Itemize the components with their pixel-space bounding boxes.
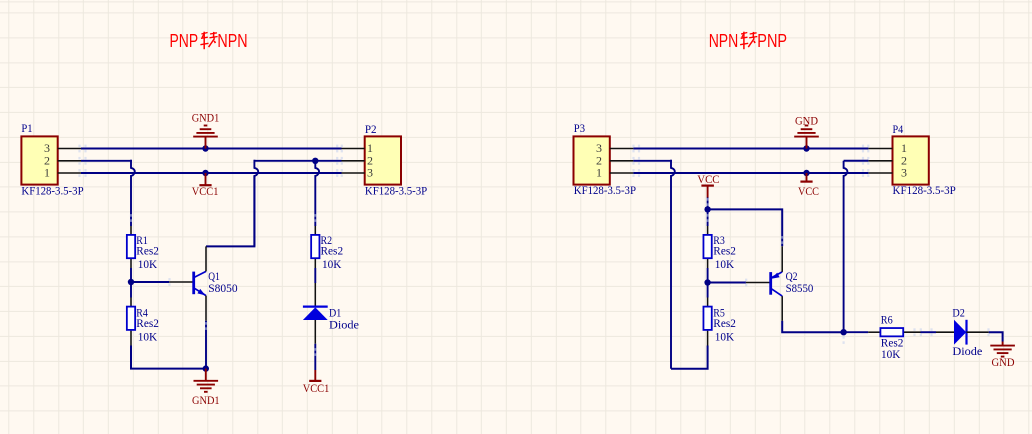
svg-text:Diode: Diode: [952, 346, 982, 358]
wire P4.2 riser x843.6 with hop: [844, 160, 869, 162]
wire R6 to D2: [921, 331, 937, 333]
transistor Q1 S8050 (NPN): [169, 246, 206, 368]
junction emitter/GND1: [203, 365, 209, 371]
P2 pin 1: [342, 141, 374, 155]
wire base: junction to Q1: [131, 281, 169, 283]
wire vertical x131 with hop: [131, 160, 135, 226]
diode D2: [936, 320, 989, 345]
junction at VCC wire: [803, 170, 809, 176]
pin hotspot markers: [78, 145, 989, 356]
svg-text:10K: 10K: [715, 331, 735, 343]
wire R1 bottom to junction: [130, 268, 132, 282]
svg-text:P1: P1: [21, 123, 32, 135]
svg-text:Res2: Res2: [136, 318, 159, 330]
wire P1.2 to riser: [81, 160, 132, 162]
hop on collector riser x254.4: [254, 160, 258, 247]
junction at VCC1 wire: [202, 170, 208, 176]
power port VCC1 (bottom): [303, 370, 330, 395]
title: NPN转PNP: [709, 31, 787, 51]
P4 pin 1: [868, 141, 907, 155]
junction collector/R6: [840, 329, 846, 335]
resistor R6: [868, 328, 920, 336]
svg-text:3: 3: [901, 166, 907, 180]
svg-text:VCC1: VCC1: [192, 186, 219, 198]
svg-text:GND: GND: [992, 355, 1015, 369]
wire junction to R5 top: [707, 283, 709, 298]
resistor R4: [127, 298, 135, 346]
svg-text:10K: 10K: [138, 331, 158, 343]
svg-text:Res2: Res2: [881, 337, 904, 349]
P1 pin 2: [44, 154, 81, 168]
title: PNP转NPN: [170, 31, 248, 51]
wire R4 bottom elbow to emitter junction: [131, 346, 206, 369]
junction R2 branch: [312, 158, 318, 164]
svg-text:VCC: VCC: [697, 174, 719, 186]
svg-text:P4: P4: [893, 124, 904, 136]
P3 pin 1: [596, 166, 633, 180]
resistor R1: [127, 226, 135, 268]
connector P4 KF128-3.5-3P: [893, 124, 956, 197]
transistor Q2 S8550 (PNP): [746, 246, 782, 320]
P2 pin 2: [342, 154, 374, 168]
svg-text:Diode: Diode: [329, 319, 359, 331]
connector P3 KF128-3.5-3P: [574, 123, 637, 197]
wire net VCC: P3.1 to P4.3: [633, 172, 868, 174]
svg-text:Res2: Res2: [321, 246, 344, 258]
svg-text:VCC: VCC: [798, 186, 819, 198]
wire bottom elbow to R5: [671, 346, 708, 369]
svg-text:Res2: Res2: [136, 246, 159, 258]
svg-text:GND1: GND1: [192, 393, 220, 407]
svg-text:KF128-3.5-3P: KF128-3.5-3P: [574, 185, 636, 197]
svg-text:GND: GND: [795, 114, 818, 128]
power port VCC1 (top): [192, 173, 219, 198]
resistor R2: [311, 226, 319, 268]
wire emitter feed: junction to Q2: [708, 209, 783, 246]
svg-text:S8050: S8050: [208, 283, 238, 295]
svg-text:Q2: Q2: [786, 271, 798, 283]
wire R2 bottom to D1: [314, 268, 316, 283]
wire net GND: P3.3 to P4.1: [633, 148, 868, 150]
wire D1 anode to VCC1 port: [314, 344, 316, 370]
P3 pin 2: [596, 154, 633, 168]
wire Q2 collector to R6 junction: [782, 321, 843, 332]
svg-text:Res2: Res2: [713, 318, 736, 330]
P4 pin 3: [868, 166, 907, 180]
P1 pin 1: [44, 166, 81, 180]
svg-text:KF128-3.5-3P: KF128-3.5-3P: [365, 185, 427, 197]
P2 pin 3: [342, 166, 374, 180]
svg-text:10K: 10K: [715, 259, 735, 271]
svg-text:R6: R6: [881, 314, 893, 326]
svg-text:S8550: S8550: [786, 283, 814, 295]
svg-text:NPN: NPN: [217, 31, 247, 51]
svg-text:P3: P3: [574, 123, 585, 135]
junction R1/R4/base: [128, 279, 134, 285]
wire VCC port to junction: [707, 198, 709, 210]
power port GND (top): [794, 114, 819, 149]
svg-text:KF128-3.5-3P: KF128-3.5-3P: [21, 185, 83, 197]
svg-text:Res2: Res2: [713, 246, 736, 258]
wire junction to R3 top: [707, 209, 709, 226]
svg-text:PNP: PNP: [170, 31, 199, 51]
junction at GND1 wire: [202, 145, 208, 151]
svg-text:P2: P2: [365, 124, 377, 136]
resistor R5: [703, 298, 711, 346]
power port GND (bottom right): [990, 342, 1015, 370]
power port VCC (middle): [697, 174, 719, 198]
wire vertical x315.3 with hop to R2: [315, 160, 319, 226]
junction R3/R5/base: [704, 279, 710, 285]
wire pin2 net: riser to P2.2: [254, 160, 341, 162]
svg-text:Q1: Q1: [208, 271, 220, 283]
svg-text:1: 1: [44, 166, 50, 180]
junction at GND wire: [803, 145, 809, 151]
wire P3.2 to riser: [633, 160, 672, 162]
P4 pin 2: [868, 154, 907, 168]
wire junction to R6: [844, 331, 869, 333]
P3 pin 3: [596, 141, 633, 155]
svg-text:PNP: PNP: [757, 31, 787, 51]
svg-text:10K: 10K: [881, 349, 901, 361]
power port VCC (right): [798, 173, 819, 198]
wire base: junction to Q2: [708, 282, 746, 284]
svg-text:VCC1: VCC1: [303, 383, 330, 395]
svg-text:3: 3: [367, 166, 373, 180]
power port GND1 (bottom): [192, 369, 220, 408]
svg-text:GND1: GND1: [192, 111, 220, 125]
wire junction to R4 top: [130, 282, 132, 298]
power port GND1 (top): [192, 111, 220, 149]
wire net GND1: P1.3 to P2.1: [81, 148, 342, 150]
svg-text:D2: D2: [952, 308, 965, 320]
wire R3 bottom to junction: [707, 268, 709, 283]
wire D2 cathode to GND port: [989, 332, 1003, 341]
wire vertical x671 with hop down to bottom: [671, 160, 675, 369]
svg-text:1: 1: [596, 166, 602, 180]
svg-text:NPN: NPN: [709, 31, 739, 51]
svg-text:KF128-3.5-3P: KF128-3.5-3P: [893, 185, 956, 197]
svg-text:D1: D1: [329, 308, 342, 320]
wire collector link: Q1 up to pin2 net: [206, 176, 254, 246]
wire net VCC1: P1.1 to P2.3: [81, 172, 342, 174]
connector P2 KF128-3.5-3P: [365, 124, 427, 197]
diode D1: [303, 283, 328, 344]
junction VCC/R3/emitter feed: [704, 206, 710, 212]
connector P1 KF128-3.5-3P: [21, 123, 83, 197]
resistor R3: [703, 226, 711, 268]
P1 pin 3: [44, 141, 81, 155]
svg-text:10K: 10K: [138, 259, 158, 271]
svg-text:10K: 10K: [322, 259, 342, 271]
